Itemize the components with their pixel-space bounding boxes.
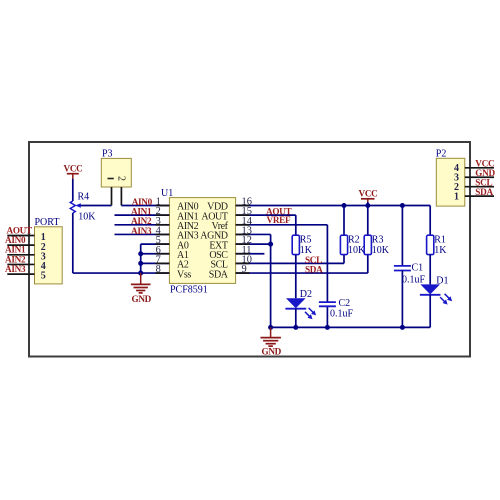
resistor R5 1K	[292, 235, 313, 257]
wire P2 pin4 net VCC	[465, 167, 494, 169]
node VCC label (P2)	[475, 159, 494, 169]
wire P2 pin1 net SDA	[465, 195, 494, 197]
svg-text:1K: 1K	[300, 245, 313, 256]
pin 14 U1 number	[242, 216, 253, 227]
pin 1 U1 left stub	[155, 205, 169, 207]
wire net AIN2 stub to U1 pin3	[115, 224, 170, 226]
svg-text:SCL: SCL	[305, 255, 322, 265]
pin name OSC	[209, 250, 228, 261]
pin name Vref	[211, 221, 228, 232]
pin 3 U1 number	[156, 216, 161, 227]
pin 1 U1 number	[156, 197, 161, 208]
svg-text:10K: 10K	[78, 211, 96, 222]
LED D2	[285, 289, 316, 319]
wire C2 bottom to ground rail	[326, 306, 328, 327]
pin number 1 (rotated)	[108, 178, 114, 180]
wire PORT pin3 net AIN1	[7, 254, 34, 256]
wire EXT pin12 to ground column	[236, 243, 271, 245]
pin name AGND	[200, 231, 227, 242]
resistor R2 10K	[340, 235, 366, 257]
pin 11 U1 right stub	[236, 253, 250, 255]
svg-text:R4: R4	[78, 192, 90, 203]
wire U1 pin7 to ground bus	[141, 262, 170, 264]
svg-text:AIN0: AIN0	[132, 197, 153, 207]
wire R5 top from AOUT	[295, 234, 297, 236]
wire C1 top to VDD rail	[401, 206, 403, 266]
connector P2	[436, 149, 465, 207]
pin 8 U1 number	[156, 264, 161, 275]
wire PORT pin1 net AOUT	[7, 235, 34, 237]
pin name SCL	[210, 260, 227, 271]
node AIN0 label	[5, 235, 26, 245]
pin name AIN2	[177, 221, 199, 232]
pin 11 U1 number	[242, 245, 252, 256]
svg-text:R2: R2	[348, 235, 360, 246]
wire net AIN0 P3 pin2 to U1 pin1	[121, 205, 169, 207]
node AIN1 label	[5, 245, 26, 255]
pin 16 U1 number	[242, 197, 252, 208]
junction VCC stem on VDD rail	[365, 203, 370, 208]
junction R2/VDD	[342, 203, 347, 208]
wire R3 top to VDD rail	[367, 206, 369, 236]
node AIN3 label	[5, 264, 26, 274]
svg-text:10K: 10K	[372, 245, 390, 256]
node AOUT label	[7, 225, 33, 235]
svg-text:D1: D1	[436, 275, 448, 286]
wire SCL pin10 to R2	[236, 255, 344, 264]
svg-text:AIN1: AIN1	[5, 245, 26, 255]
wire R4 bottom to GND bus	[73, 213, 141, 273]
pin name A1	[177, 250, 189, 261]
junction pin8	[138, 271, 143, 276]
pin 4 U1 left stub	[155, 233, 169, 235]
pin name A0	[177, 240, 189, 251]
svg-text:AIN2: AIN2	[5, 254, 26, 264]
svg-text:P3: P3	[102, 148, 113, 159]
pin name SDA	[209, 269, 229, 280]
pin 3 U1 left stub	[155, 224, 169, 226]
power VCC (left)	[64, 163, 83, 179]
junction D2/rail	[293, 325, 298, 330]
wire AGND pin13 to ground rail	[236, 234, 271, 327]
pin 9 U1 right stub	[236, 272, 250, 274]
svg-text:SDA: SDA	[209, 269, 229, 280]
pin 16 U1 right stub	[236, 205, 250, 207]
node AIN2 label	[131, 216, 152, 226]
pin P3-1	[111, 187, 113, 206]
wire OSC pin11 stub n.c.	[236, 253, 265, 255]
connector P3	[101, 148, 131, 187]
junction pin7	[138, 261, 143, 266]
wire U1 pin6 to ground bus	[141, 253, 170, 255]
pin P3-2	[120, 187, 122, 206]
pin 2 U1 number	[156, 206, 161, 217]
svg-text:AIN3: AIN3	[5, 264, 26, 274]
junction C1/rail	[400, 325, 405, 330]
svg-text:PORT: PORT	[35, 217, 60, 228]
wire SDA pin9 to R3	[236, 255, 368, 273]
wire AOUT pin15 to R5	[236, 215, 296, 235]
wire R5 to D2	[295, 255, 297, 299]
svg-text:VCC: VCC	[64, 163, 83, 173]
pin 10 U1 right stub	[236, 262, 250, 264]
wire VDD rail pin16 to R1 column	[236, 205, 431, 207]
node AIN3 label	[131, 226, 152, 236]
wire U1 pin5 to ground bus	[141, 243, 170, 245]
pin 6 U1 number	[156, 245, 161, 256]
capacitor C1 0.1uF	[394, 262, 426, 285]
junction C2/rail	[325, 325, 330, 330]
LED D1	[420, 275, 452, 304]
svg-text:R3: R3	[372, 235, 384, 246]
resistor R3 10K	[364, 235, 390, 257]
resistor R1 1K	[427, 235, 448, 257]
wire U1 pin8 to ground bus	[141, 272, 170, 274]
wire P2 pin3 net GND	[465, 176, 494, 178]
svg-text:U1: U1	[161, 188, 173, 199]
wire R1 to D1	[429, 255, 431, 285]
pin 6 U1 left stub	[155, 253, 169, 255]
pin 5 U1 number	[156, 235, 161, 246]
svg-text:1K: 1K	[434, 245, 447, 256]
pin 13 U1 number	[242, 225, 252, 236]
node SDA label (P2)	[475, 187, 493, 197]
svg-text:2: 2	[115, 176, 126, 181]
junction pin6	[138, 251, 143, 256]
svg-text:Vss: Vss	[177, 269, 191, 280]
pin name AIN1	[177, 211, 199, 222]
svg-text:SDA: SDA	[475, 187, 493, 197]
pin name Vss	[177, 269, 191, 280]
ground GND (left)	[131, 273, 152, 304]
wire C1 bottom to ground rail	[401, 271, 403, 328]
node SDA label	[305, 265, 323, 275]
wire VCC to R4 top	[72, 179, 74, 201]
wire D1 cathode to ground rail	[429, 295, 431, 328]
pin 14 U1 right stub	[236, 224, 250, 226]
resistor R4 potentiometer 10K	[70, 192, 96, 223]
pin 7 U1 left stub	[155, 262, 169, 264]
pin name EXT	[209, 240, 228, 251]
node AIN2 label	[5, 254, 26, 264]
connector PORT	[35, 217, 63, 284]
junction GND stem/rail	[268, 325, 273, 330]
pin name AOUT	[201, 211, 227, 222]
svg-text:VREF: VREF	[267, 215, 291, 225]
svg-text:AOUT: AOUT	[7, 225, 33, 235]
node VREF label	[267, 215, 291, 225]
wire net AIN3 stub to U1 pin4	[115, 233, 170, 235]
pin 9 U1 number	[242, 264, 247, 275]
pin 8 U1 left stub	[155, 272, 169, 274]
wire ground rail	[271, 326, 431, 328]
ground GND (right)	[261, 327, 282, 356]
svg-text:GND: GND	[262, 346, 282, 356]
pin 12 U1 right stub	[236, 243, 250, 245]
svg-text:AIN0: AIN0	[5, 235, 26, 245]
svg-text:5: 5	[41, 271, 46, 282]
svg-text:0.1uF: 0.1uF	[330, 309, 354, 320]
node GND label (P2)	[475, 168, 495, 178]
wire net AIN1 stub to U1 pin2	[115, 214, 170, 216]
pin name AIN0	[177, 202, 199, 213]
svg-text:C1: C1	[412, 262, 424, 273]
svg-text:SDA: SDA	[305, 265, 323, 275]
svg-text:10K: 10K	[348, 245, 366, 256]
svg-text:PCF8591: PCF8591	[170, 284, 208, 295]
capacitor C2 0.1uF	[319, 298, 354, 319]
svg-text:GND: GND	[132, 294, 152, 304]
pin 12 U1 number	[242, 235, 252, 246]
svg-text:P2: P2	[436, 149, 447, 160]
svg-text:C2: C2	[339, 298, 351, 309]
wire ground bus vertical	[140, 244, 142, 273]
wire PORT pin4 net AIN2	[7, 263, 34, 265]
svg-text:0.1uF: 0.1uF	[402, 274, 426, 285]
svg-text:AIN3: AIN3	[131, 226, 152, 236]
wire R2 top to VDD rail	[343, 206, 345, 236]
junction C1/VDD	[400, 203, 405, 208]
power VCC (right)	[359, 188, 378, 205]
pin 13 U1 right stub	[236, 233, 250, 235]
wire PORT pin2 net AIN0	[7, 244, 34, 246]
svg-text:AIN1: AIN1	[131, 206, 152, 216]
svg-text:1: 1	[454, 191, 459, 202]
pin name VDD	[207, 202, 228, 213]
pin 10 U1 number	[242, 254, 252, 265]
pin name AIN3	[177, 231, 199, 242]
svg-text:R1: R1	[434, 235, 446, 246]
svg-text:AIN2: AIN2	[131, 216, 152, 226]
svg-text:VCC: VCC	[359, 188, 378, 198]
wire PORT pin5 net AIN3	[7, 273, 34, 275]
wire R1 top from VDD rail	[429, 206, 431, 236]
junction EXT/AGND	[268, 242, 273, 247]
pin 7 U1 number	[156, 254, 161, 265]
node AOUT label	[266, 206, 292, 216]
wire P2 pin2 net SCL	[465, 186, 494, 188]
node AIN1 label	[131, 206, 152, 216]
pin 4 U1 number	[156, 225, 162, 236]
node AIN0 label	[132, 197, 153, 207]
node SCL label	[305, 255, 322, 265]
pin 15 U1 right stub	[236, 214, 250, 216]
node SCL label (P2)	[475, 178, 492, 188]
wire VREF pin14 to C2	[236, 225, 328, 302]
pin 15 U1 number	[242, 206, 252, 217]
svg-text:D2: D2	[300, 289, 312, 300]
pin 5 U1 left stub	[155, 243, 169, 245]
wire D2 cathode to ground rail	[295, 309, 297, 328]
svg-text:R5: R5	[300, 235, 312, 246]
wire R4 wiper to P3 pin1	[81, 205, 112, 207]
pin name A2	[177, 260, 189, 271]
op-amp U1 PCF8591 body	[161, 188, 236, 295]
pin 2 U1 left stub	[155, 214, 169, 216]
